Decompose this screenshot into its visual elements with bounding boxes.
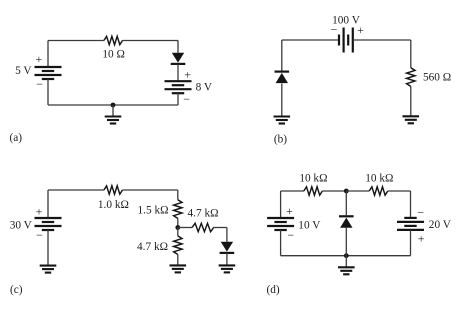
wire (d) top-middle-right	[346, 190, 369, 192]
resistor 10 kohm right (d)	[369, 187, 388, 195]
wire (a) diode to battery	[177, 64, 179, 81]
ground (d)	[338, 267, 355, 274]
svg-text:(d): (d)	[267, 284, 280, 296]
svg-text:(b): (b)	[274, 133, 287, 145]
wire (c) node to resistor	[178, 227, 192, 229]
battery 8 V (a)	[165, 81, 192, 93]
ground (c) left	[40, 266, 57, 273]
svg-text:20 V: 20 V	[429, 219, 452, 231]
wire (d) left vertical upper	[280, 191, 282, 218]
resistor 10 ohm (a)	[104, 36, 123, 44]
resistor 10 kohm left (d)	[304, 187, 323, 195]
svg-text:+: +	[357, 23, 364, 37]
svg-text:10 Ω: 10 Ω	[102, 49, 125, 61]
svg-text:−: −	[417, 205, 424, 219]
wire (c) resistor to ground	[177, 255, 179, 266]
wire (a) top-right	[123, 40, 179, 42]
svg-text:30 V: 30 V	[10, 219, 33, 231]
svg-text:−: −	[287, 228, 294, 242]
wire (a) right vertical upper	[177, 41, 179, 53]
battery 30 V (c)	[35, 218, 62, 230]
wire (d) ground stub	[345, 256, 347, 268]
junction node (c)	[175, 225, 180, 230]
junction node (a) bottom	[111, 103, 116, 108]
svg-text:+: +	[36, 205, 43, 219]
wire (b) top-right	[353, 39, 411, 41]
svg-text:−: −	[331, 22, 338, 36]
ground (b) left	[274, 117, 291, 124]
svg-text:10 V: 10 V	[298, 220, 321, 232]
wire (a) ground stub	[112, 105, 114, 116]
wire (b) top-left	[282, 39, 339, 41]
svg-text:−: −	[183, 92, 190, 106]
wire (a) right vertical lower	[177, 93, 179, 105]
diode D4 (d)	[339, 216, 354, 228]
wire (d) middle vertical upper	[345, 191, 347, 215]
wire (c) top-left	[48, 189, 104, 191]
wire (c) node down	[177, 228, 179, 236]
wire (c) corner down to diode	[226, 228, 228, 242]
wire (c) top-right	[123, 189, 178, 191]
resistor 4.7 kohm vertical (c)	[174, 236, 182, 255]
svg-text:+: +	[36, 52, 43, 66]
svg-text:10 kΩ: 10 kΩ	[299, 173, 327, 185]
svg-text:(a): (a)	[10, 132, 23, 144]
battery 20 V (d)	[397, 218, 424, 230]
svg-text:−: −	[36, 228, 43, 242]
wire (d) top-right	[388, 190, 411, 192]
resistor 1.0 kohm (c)	[104, 186, 123, 194]
diode D2 (b)	[275, 72, 290, 84]
battery 10 V (d)	[267, 218, 294, 230]
ground (a)	[105, 117, 122, 124]
resistor 4.7 kohm horizontal (c)	[192, 223, 214, 231]
svg-text:560 Ω: 560 Ω	[423, 72, 451, 84]
wire (a) top-left	[48, 40, 104, 42]
wire (a) left vertical upper	[47, 41, 49, 68]
wire (b) left vertical upper	[281, 40, 283, 71]
svg-text:8 V: 8 V	[196, 82, 213, 94]
wire (d) right vertical upper	[410, 191, 412, 218]
battery 5 V (a)	[35, 67, 62, 79]
svg-text:4.7 kΩ: 4.7 kΩ	[188, 208, 219, 220]
wire (a) bottom	[48, 104, 178, 106]
svg-text:+: +	[418, 231, 425, 245]
resistor 1.5 kohm (c)	[174, 200, 182, 219]
ground (c) middle	[170, 265, 187, 272]
svg-text:(c): (c)	[10, 284, 23, 296]
junction node (d) top	[344, 189, 349, 194]
wire (c) right vertical upper	[177, 190, 179, 200]
ground (b) right	[403, 116, 420, 123]
wire (b) right vertical lower	[410, 86, 412, 116]
svg-text:+: +	[184, 68, 191, 82]
wire (c) resistor to node	[177, 218, 179, 227]
wire (c) left vertical lower	[47, 230, 49, 266]
diode D3 (c)	[220, 242, 235, 253]
svg-text:5 V: 5 V	[15, 65, 32, 77]
svg-text:4.7 kΩ: 4.7 kΩ	[137, 241, 168, 253]
wire (d) middle vertical lower	[345, 228, 347, 256]
svg-text:+: +	[286, 204, 293, 218]
wire (c) left vertical upper	[47, 190, 49, 218]
wire (c) resistor to corner	[214, 227, 227, 229]
diode D1 (a)	[171, 53, 186, 64]
svg-text:10 kΩ: 10 kΩ	[365, 173, 393, 185]
wire (b) left vertical lower	[281, 84, 283, 117]
wire (d) left vertical lower	[280, 230, 282, 256]
wire (d) top-left	[281, 190, 304, 192]
svg-text:1.5 kΩ: 1.5 kΩ	[138, 204, 169, 216]
wire (b) right vertical upper	[410, 40, 412, 68]
ground (c) right	[219, 265, 236, 272]
svg-text:1.0 kΩ: 1.0 kΩ	[98, 199, 129, 211]
resistor 560 ohm (b)	[407, 68, 415, 87]
wire (d) top-middle-left	[322, 190, 346, 192]
svg-text:−: −	[36, 77, 43, 91]
wire (a) left vertical lower	[47, 79, 49, 105]
wire (c) diode to ground	[226, 253, 228, 265]
battery 100 V (b)	[339, 28, 353, 53]
wire (d) bottom	[281, 255, 411, 257]
wire (d) right vertical lower	[410, 230, 412, 256]
junction node (d) bottom	[344, 253, 349, 258]
